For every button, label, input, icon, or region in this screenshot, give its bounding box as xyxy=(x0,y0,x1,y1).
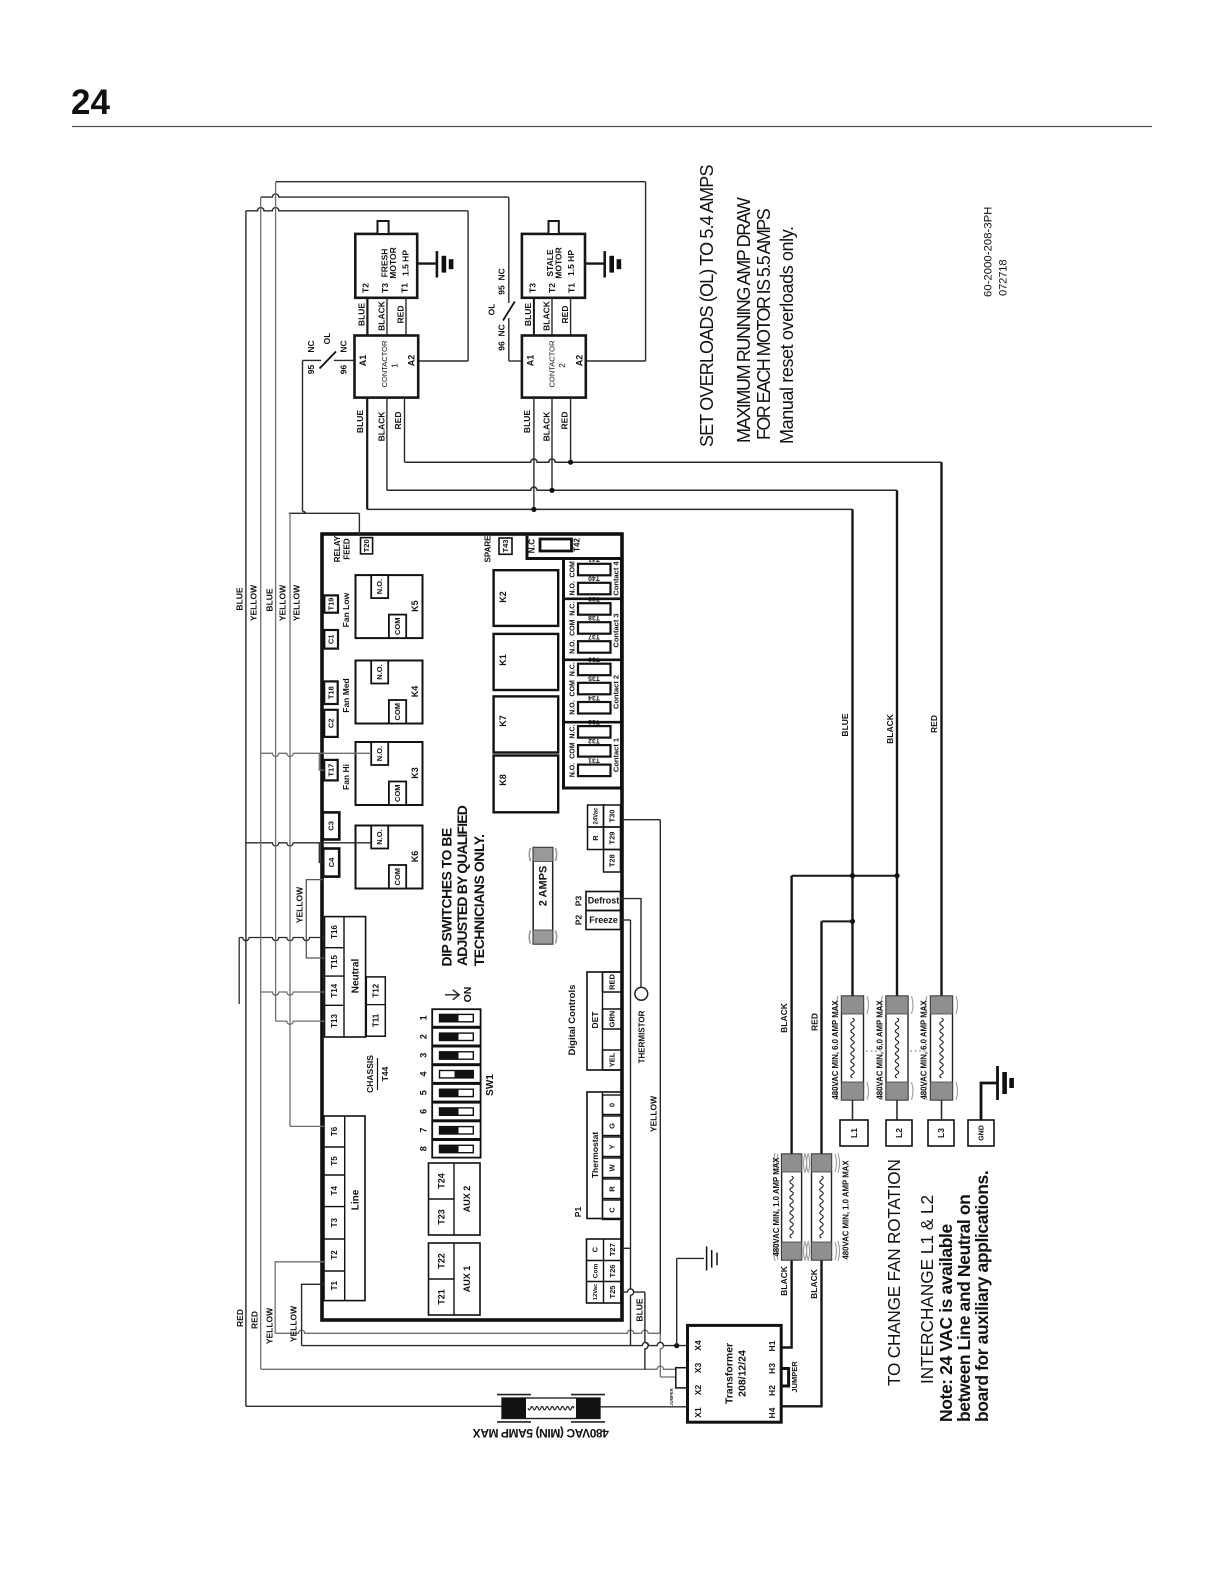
svg-text:K6: K6 xyxy=(410,851,420,863)
wire T1 to X4 YELLOW xyxy=(302,1284,324,1345)
svg-text:RED: RED xyxy=(560,412,570,430)
svg-text:YELLOW: YELLOW xyxy=(265,1307,275,1344)
svg-text:FOR EACH MOTOR IS 5.5 AMPS: FOR EACH MOTOR IS 5.5 AMPS xyxy=(754,208,774,440)
svg-text:COM: COM xyxy=(569,680,576,697)
DIP switch 7 xyxy=(432,1121,480,1139)
svg-text:TO CHANGE FAN ROTATION: TO CHANGE FAN ROTATION xyxy=(884,1159,904,1386)
svg-text:MOTOR: MOTOR xyxy=(388,247,398,278)
svg-text:MOTOR: MOTOR xyxy=(553,247,563,278)
DIP switch 5 xyxy=(432,1084,480,1102)
svg-text:SPARE: SPARE xyxy=(483,535,492,563)
svg-text:BLUE: BLUE xyxy=(264,588,274,611)
svg-text:H3: H3 xyxy=(767,1363,777,1374)
wire W2 tee to T17 and K3 N.O. xyxy=(261,753,372,756)
svg-text:T3: T3 xyxy=(528,283,538,293)
overload OL2 contact 95-96 NC xyxy=(508,197,510,303)
svg-text:JUMPER: JUMPER xyxy=(790,1361,799,1393)
svg-text:COM: COM xyxy=(569,742,576,759)
svg-text:N.C.: N.C. xyxy=(569,725,576,739)
svg-text:T2: T2 xyxy=(330,1250,339,1260)
svg-text:2: 2 xyxy=(419,1034,429,1039)
svg-text:Freeze: Freeze xyxy=(589,915,618,925)
header rule xyxy=(72,126,1152,128)
svg-text:T3: T3 xyxy=(330,1217,339,1227)
svg-text:C: C xyxy=(591,1246,600,1252)
DIP switch 6 xyxy=(432,1103,480,1121)
svg-text:H2: H2 xyxy=(767,1385,777,1396)
svg-text:YELLOW: YELLOW xyxy=(649,1095,659,1132)
svg-text:T35: T35 xyxy=(588,675,600,682)
svg-text:2: 2 xyxy=(558,363,567,368)
svg-text:X4: X4 xyxy=(693,1340,703,1351)
svg-text:T6: T6 xyxy=(330,1126,339,1136)
svg-text:Contact 3: Contact 3 xyxy=(612,613,621,647)
terminal T34 (N.O.) xyxy=(578,702,611,714)
svg-text:COM: COM xyxy=(569,619,576,636)
svg-text:THERMISTOR: THERMISTOR xyxy=(637,1010,646,1063)
svg-text:T44: T44 xyxy=(380,1066,390,1081)
svg-text:4: 4 xyxy=(419,1071,429,1076)
svg-text:N.O.: N.O. xyxy=(375,664,384,679)
wire fuse to X1 xyxy=(600,1406,688,1408)
svg-text:T21: T21 xyxy=(436,1289,446,1305)
wire C4 to T15 YELLOW jumper xyxy=(306,880,324,958)
svg-text:T38: T38 xyxy=(588,614,600,621)
fuse 480VAC MIN 6.0 AMP MAX (L2) xyxy=(886,996,908,1100)
svg-text:8: 8 xyxy=(419,1146,429,1151)
DIP switch 4 xyxy=(432,1065,480,1083)
wire defrost to thermistor xyxy=(621,899,642,988)
svg-text:COM: COM xyxy=(569,561,576,578)
motor FRESH MOTOR 1.5HP xyxy=(355,234,417,298)
svg-text:CHASSIS: CHASSIS xyxy=(365,1055,375,1093)
svg-text:T4: T4 xyxy=(330,1185,339,1195)
svg-text:T23: T23 xyxy=(436,1209,446,1225)
terminal C3 xyxy=(323,812,340,839)
svg-text:CONTACTOR: CONTACTOR xyxy=(547,340,556,387)
terminal strip Neutral T13-T16 xyxy=(325,917,366,1037)
svg-text:P1: P1 xyxy=(573,1207,583,1218)
svg-text:N.O.: N.O. xyxy=(569,581,576,595)
terminal block T25 T26 T27 xyxy=(587,1239,622,1303)
wire contactor2 BLUE out xyxy=(533,398,535,510)
svg-text:Fan Med: Fan Med xyxy=(341,678,351,712)
svg-text:SET OVERLOADS (OL) TO 5.4 AMP: SET OVERLOADS (OL) TO 5.4 AMPS xyxy=(697,165,717,447)
thermistor xyxy=(635,987,648,1000)
terminal L2 xyxy=(886,1120,912,1146)
svg-text:96: 96 xyxy=(338,365,348,375)
svg-text:T29: T29 xyxy=(608,832,617,845)
svg-text:SW1: SW1 xyxy=(485,1074,496,1096)
svg-text:GND: GND xyxy=(979,1125,986,1141)
svg-text:DET: DET xyxy=(590,1011,600,1029)
svg-text:N.O.: N.O. xyxy=(375,746,384,761)
svg-text:T19: T19 xyxy=(327,598,336,611)
wire W4 to T6 xyxy=(290,1125,324,1127)
svg-text:T15: T15 xyxy=(330,955,339,969)
contactor 1 xyxy=(355,336,419,398)
svg-text:YELLOW: YELLOW xyxy=(289,1305,299,1342)
wire W1 tee to C4 and K6 N.O. xyxy=(246,843,372,846)
svg-text:480VAC (MIN) 5AMP MAX: 480VAC (MIN) 5AMP MAX xyxy=(473,1426,609,1440)
svg-text:G: G xyxy=(608,1123,617,1129)
wire fuse1 feed branch xyxy=(790,876,792,1154)
svg-text:ADJUSTED BY QUALIFIED: ADJUSTED BY QUALIFIED xyxy=(454,805,470,966)
relay K8 xyxy=(494,756,559,813)
wire stale motor T2 BLACK xyxy=(551,298,553,336)
svg-text:INTERCHANGE L1 & L2: INTERCHANGE L1 & L2 xyxy=(917,1195,937,1384)
svg-text:RED: RED xyxy=(560,306,570,324)
terminal T11 T12 xyxy=(366,977,385,1036)
relay K6 xyxy=(356,826,423,889)
svg-text:2 AMPS: 2 AMPS xyxy=(537,866,549,907)
relay K2 xyxy=(494,570,559,626)
svg-text:BLACK: BLACK xyxy=(376,300,386,331)
svg-text:480VAC MIN, 1.0 AMP MAX: 480VAC MIN, 1.0 AMP MAX xyxy=(772,1157,781,1257)
wire stale motor T1 RED xyxy=(570,298,572,336)
terminal P2 Freeze xyxy=(586,911,621,930)
motor STALE MOTOR 1.5HP xyxy=(522,234,585,298)
svg-text:between Line and Neutral on: between Line and Neutral on xyxy=(954,1195,974,1422)
svg-text:24Vac: 24Vac xyxy=(594,807,600,825)
relay K4 xyxy=(356,661,423,724)
svg-text:OL: OL xyxy=(322,333,332,345)
svg-text:T31: T31 xyxy=(588,756,600,763)
svg-text:BLUE: BLUE xyxy=(523,303,533,326)
svg-text:K7: K7 xyxy=(498,715,508,727)
svg-text:BLUE: BLUE xyxy=(635,1298,645,1321)
terminal T37 (N.O.) xyxy=(578,641,611,653)
fuse 480VAC MIN 6.0 AMP MAX (L3) xyxy=(931,996,953,1100)
wire W2 tee to T14 xyxy=(261,992,325,995)
svg-text:H4: H4 xyxy=(767,1407,777,1418)
svg-text:AUX 2: AUX 2 xyxy=(462,1186,472,1213)
svg-text:072718: 072718 xyxy=(998,260,1010,296)
svg-text:Note: 24 VAC is available: Note: 24 VAC is available xyxy=(936,1224,956,1422)
terminal T40 (N.O.) xyxy=(578,583,611,595)
svg-text:T36: T36 xyxy=(588,656,600,663)
control board outline xyxy=(322,534,622,1320)
svg-text:C1: C1 xyxy=(327,635,336,645)
svg-text:T12: T12 xyxy=(372,983,381,997)
svg-text:T42: T42 xyxy=(572,538,581,552)
wire feed L3 (to contactor1 A2) xyxy=(246,208,468,211)
svg-text:Com: Com xyxy=(592,1264,599,1279)
wire W1 RED (feed L3 corner to X1 fuse) xyxy=(245,211,247,1407)
svg-text:W: W xyxy=(608,1164,617,1172)
wire feed L1 (top line to contactor2 A2) xyxy=(276,181,646,183)
svg-text:Neutral: Neutral xyxy=(351,959,362,994)
wire T30 24Vac down xyxy=(659,820,661,1334)
svg-text:1.5 HP: 1.5 HP xyxy=(401,250,411,276)
ground symbol fresh motor xyxy=(417,262,436,264)
svg-text:N.C.: N.C. xyxy=(569,602,576,616)
wire stale motor T3 BLUE xyxy=(533,298,535,336)
wire ground tap to X4 line xyxy=(676,1258,678,1345)
svg-text:AUX 1: AUX 1 xyxy=(462,1266,472,1293)
wire H4 to fuse2 xyxy=(781,1260,821,1406)
svg-text:YELLOW: YELLOW xyxy=(277,584,287,621)
svg-text:T27: T27 xyxy=(608,1243,617,1256)
svg-text:ON: ON xyxy=(462,987,474,1003)
svg-text:C3: C3 xyxy=(327,821,336,831)
svg-text:RELAY: RELAY xyxy=(333,535,342,562)
svg-text:X2: X2 xyxy=(693,1385,703,1396)
svg-text:L2: L2 xyxy=(894,1128,904,1138)
fuse 480VAC MIN 6.0 AMP MAX (L1) xyxy=(842,996,864,1100)
terminal GND xyxy=(968,1120,994,1146)
svg-text:BLUE: BLUE xyxy=(234,587,244,610)
svg-text:1: 1 xyxy=(390,363,399,368)
terminal C1 xyxy=(324,630,338,649)
svg-text:BLUE: BLUE xyxy=(522,410,532,433)
svg-text:T37: T37 xyxy=(588,633,600,640)
jumper X3-X2 box xyxy=(676,1368,688,1388)
svg-text:95 NC: 95 NC xyxy=(497,268,507,294)
svg-text:T28: T28 xyxy=(608,854,617,867)
svg-text:N.O.: N.O. xyxy=(569,763,576,777)
svg-text:CONTACTOR: CONTACTOR xyxy=(380,340,389,387)
wire T16 feed xyxy=(239,937,324,940)
svg-text:K1: K1 xyxy=(498,654,508,666)
svg-text:480VAC MIN, 1.0 AMP MAX: 480VAC MIN, 1.0 AMP MAX xyxy=(841,1160,850,1260)
svg-text:NC: NC xyxy=(338,340,348,352)
svg-text:RED: RED xyxy=(608,974,617,990)
svg-text:BLACK: BLACK xyxy=(779,1002,789,1033)
svg-text:RED: RED xyxy=(393,412,403,430)
svg-text:Line: Line xyxy=(350,1189,361,1210)
svg-text:Digital Controls: Digital Controls xyxy=(567,985,578,1056)
wire freeze down xyxy=(621,919,631,921)
svg-text:C: C xyxy=(608,1207,617,1213)
svg-text:Contact 2: Contact 2 xyxy=(612,675,621,709)
svg-text:COM: COM xyxy=(393,618,402,636)
svg-text:YELLOW: YELLOW xyxy=(248,584,258,621)
wire contactor2 BLACK out xyxy=(551,398,553,491)
terminal T32 (COM) xyxy=(578,745,611,757)
terminal T17 xyxy=(324,760,338,781)
DIP switch 3 xyxy=(432,1047,480,1065)
svg-text:T11: T11 xyxy=(372,1013,381,1027)
wire fuse to L2 xyxy=(896,1100,898,1120)
svg-text:Defrost: Defrost xyxy=(588,896,620,906)
relay K3 xyxy=(356,742,423,805)
wire W4 (relay feed branch to T6) xyxy=(289,513,291,1126)
svg-text:T1: T1 xyxy=(567,283,577,293)
terminal P3 Defrost xyxy=(586,892,621,911)
svg-text:X3: X3 xyxy=(693,1363,703,1374)
overload OL1 contact 95-96 NC xyxy=(334,359,355,361)
svg-text:X1: X1 xyxy=(693,1407,703,1418)
svg-text:Fan Low: Fan Low xyxy=(341,592,351,627)
svg-text:60-2000-208-3PH: 60-2000-208-3PH xyxy=(983,207,995,297)
svg-text:P3: P3 xyxy=(574,896,584,907)
wire fuse to L3 xyxy=(941,1100,943,1120)
terminal T19 xyxy=(324,595,338,612)
wire fresh motor T1 RED xyxy=(405,298,407,336)
wire contactor1 RED out xyxy=(404,398,406,463)
ground tap 24vac common xyxy=(677,1257,704,1259)
svg-text:5: 5 xyxy=(419,1090,429,1095)
wire fuse to L1 xyxy=(852,1100,854,1120)
svg-text:T24: T24 xyxy=(436,1173,446,1189)
svg-text:BLUE: BLUE xyxy=(357,303,367,326)
svg-text:Thermostat: Thermostat xyxy=(590,1132,600,1178)
svg-text:N.O.: N.O. xyxy=(375,829,384,844)
svg-text:T33: T33 xyxy=(588,718,600,725)
svg-text:3: 3 xyxy=(419,1053,429,1058)
svg-text:COM: COM xyxy=(393,868,402,886)
svg-text:Contact 4: Contact 4 xyxy=(612,561,621,596)
svg-text:1.5 HP: 1.5 HP xyxy=(566,250,576,276)
wire fuse2 feed branch xyxy=(820,921,822,1154)
svg-text:GRN: GRN xyxy=(608,1011,617,1028)
svg-text:BLUE: BLUE xyxy=(840,713,850,736)
svg-text:C2: C2 xyxy=(327,719,336,729)
svg-text:T39: T39 xyxy=(588,595,600,602)
svg-text:RED: RED xyxy=(235,1309,245,1327)
svg-text:T2: T2 xyxy=(547,283,557,293)
svg-text:YELLOW: YELLOW xyxy=(291,584,301,621)
svg-text:RED: RED xyxy=(809,1013,819,1031)
svg-text:0: 0 xyxy=(608,1103,617,1107)
svg-text:96 NC: 96 NC xyxy=(497,324,507,350)
svg-text:OL: OL xyxy=(487,304,497,316)
wire contactor1 BLACK out xyxy=(386,398,388,491)
svg-text:JUMPER: JUMPER xyxy=(669,1388,674,1405)
svg-text:N.C.: N.C. xyxy=(569,662,576,676)
svg-text:208/12/24: 208/12/24 xyxy=(736,1350,748,1397)
wire fresh motor T2 BLUE xyxy=(366,298,368,336)
wire feed L2 (to OL2) xyxy=(261,194,509,197)
wire contactor1 BLUE out xyxy=(366,398,368,510)
terminal T18 xyxy=(324,681,338,704)
svg-text:T5: T5 xyxy=(330,1156,339,1166)
svg-text:R: R xyxy=(591,835,600,841)
terminal L3 xyxy=(928,1120,954,1146)
stale motor tab terminal xyxy=(549,221,559,234)
svg-text:COM: COM xyxy=(393,784,402,802)
svg-text:L3: L3 xyxy=(936,1128,946,1138)
svg-text:N.O.: N.O. xyxy=(569,700,576,714)
fuse 480VAC (MIN) 5AMP MAX xyxy=(246,1405,502,1407)
svg-text:A1: A1 xyxy=(525,355,535,367)
svg-text:T22: T22 xyxy=(436,1253,446,1269)
ground symbol stale motor xyxy=(585,262,604,264)
transformer 208/12/24 xyxy=(688,1325,782,1422)
svg-text:T3: T3 xyxy=(380,283,390,293)
contactor 2 xyxy=(522,336,586,398)
svg-text:R: R xyxy=(608,1186,617,1192)
terminal block AUX 1 (T21 T22) xyxy=(429,1243,481,1315)
wire T2 to jumper YELLOW xyxy=(275,1262,325,1334)
svg-text:Contact 1: Contact 1 xyxy=(612,738,621,772)
svg-text:board for auxiliary applicatio: board for auxiliary applications. xyxy=(972,1171,992,1422)
wire W2 RED (feed L2 corner to jumper) xyxy=(260,197,262,1369)
wire relay feed to T20 xyxy=(289,512,360,514)
svg-text:RED: RED xyxy=(395,306,405,324)
svg-text:T16: T16 xyxy=(330,925,339,939)
svg-text:BLACK: BLACK xyxy=(809,1268,819,1299)
svg-text:A2: A2 xyxy=(407,355,417,367)
terminal T39 (N.C.) xyxy=(578,603,611,615)
wire fresh motor T3 BLACK xyxy=(386,298,388,336)
svg-text:T34: T34 xyxy=(588,694,600,701)
fuse 480VAC MIN 1.0 AMP MAX (1) xyxy=(782,1154,802,1260)
contact terminal strip Contact1-4 xyxy=(564,559,622,789)
terminal L1 xyxy=(840,1120,868,1146)
svg-text:K5: K5 xyxy=(410,600,420,612)
terminal T35 (COM) xyxy=(578,683,611,695)
wire BLACK run to fuse L2 xyxy=(387,487,897,490)
svg-text:BLACK: BLACK xyxy=(779,1265,789,1296)
svg-text:BLACK: BLACK xyxy=(541,411,551,442)
svg-text:YELLOW: YELLOW xyxy=(295,886,305,923)
svg-text:7: 7 xyxy=(419,1128,429,1133)
wire H1 to fuse1 xyxy=(781,1260,791,1348)
svg-text:L1: L1 xyxy=(849,1128,859,1138)
svg-text:RED: RED xyxy=(929,715,939,733)
terminal C2 xyxy=(324,710,338,737)
svg-text:T20: T20 xyxy=(362,539,371,552)
svg-text:K2: K2 xyxy=(498,591,508,603)
wire RED run to fuse L3 xyxy=(405,459,942,462)
svg-text:Fan Hi: Fan Hi xyxy=(341,764,351,790)
svg-text:T26: T26 xyxy=(608,1265,617,1278)
fuse 2 AMPS xyxy=(533,848,553,945)
svg-text:BLACK: BLACK xyxy=(376,411,386,442)
wire BLUE run to fuse L1 xyxy=(367,508,852,510)
svg-text:480VAC MIN, 6.0 AMP MAX: 480VAC MIN, 6.0 AMP MAX xyxy=(831,1000,840,1100)
relay K5 xyxy=(356,575,423,638)
svg-text:T43: T43 xyxy=(501,540,510,553)
terminal T41 (COM) xyxy=(578,564,611,576)
svg-text:T2: T2 xyxy=(361,283,371,293)
svg-text:Y: Y xyxy=(608,1144,617,1149)
terminal block AUX 2 (T23 T24) xyxy=(429,1163,481,1235)
svg-text:BLACK: BLACK xyxy=(885,713,895,744)
svg-text:T25: T25 xyxy=(608,1286,617,1299)
fresh motor tab terminal xyxy=(378,221,389,234)
svg-text:T14: T14 xyxy=(330,983,339,997)
svg-text:T17: T17 xyxy=(327,764,336,777)
terminal T33 (N.C.) xyxy=(578,726,611,738)
wire T27 join xyxy=(621,1247,631,1249)
wire OL1 to relay feed xyxy=(302,360,304,511)
wire T25 BLUE to jumper xyxy=(621,1289,645,1292)
svg-text:K4: K4 xyxy=(410,686,420,698)
svg-text:N.O.: N.O. xyxy=(569,639,576,653)
svg-text:480VAC MIN, 6.0 AMP MAX: 480VAC MIN, 6.0 AMP MAX xyxy=(875,1000,884,1100)
svg-text:N.O.: N.O. xyxy=(375,579,384,594)
svg-text:FEED: FEED xyxy=(342,538,351,560)
svg-text:BLACK: BLACK xyxy=(541,300,551,331)
terminal T31 (N.O.) xyxy=(578,765,611,777)
terminal T38 (COM) xyxy=(578,622,611,634)
svg-text:P2: P2 xyxy=(574,915,584,926)
svg-text:K8: K8 xyxy=(498,774,508,786)
svg-text:Manual reset overloads only.: Manual reset overloads only. xyxy=(777,226,797,444)
svg-text:TECHNICIANS ONLY.: TECHNICIANS ONLY. xyxy=(471,834,487,966)
svg-text:6: 6 xyxy=(419,1109,429,1114)
svg-text:T1: T1 xyxy=(400,283,410,293)
svg-text:YEL: YEL xyxy=(608,1052,617,1067)
terminal block T28 T29 T30 xyxy=(588,805,604,827)
relay K1 xyxy=(494,634,559,690)
DIP switch 1 xyxy=(432,1009,480,1026)
terminal C4 xyxy=(323,849,339,877)
dashed link fuses xyxy=(866,1050,884,1052)
